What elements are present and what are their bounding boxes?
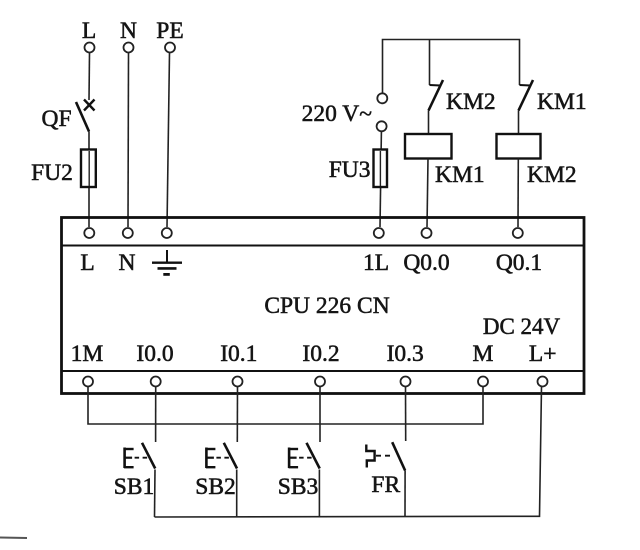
pin label Q0.0: [403, 250, 449, 276]
wire I0.2 drop: [319, 387, 321, 443]
svg-text:CPU 226 CN: CPU 226 CN: [264, 293, 389, 319]
wire KM2 coil to Q0.1: [517, 159, 519, 228]
terminal I0.0 pin: [151, 377, 161, 387]
terminal PE pin: [162, 228, 172, 238]
terminal N top: [124, 43, 134, 53]
wire SB3 to bottom bus: [318, 470, 320, 518]
wire I0.3 drop: [405, 387, 407, 442]
wire SB2 to bottom bus: [236, 470, 238, 518]
node PE label: [156, 18, 183, 44]
wire I0.1 drop: [236, 387, 238, 443]
svg-text:KM2: KM2: [527, 162, 577, 188]
svg-text:1M: 1M: [71, 341, 104, 367]
pushbutton SB1 label: [114, 474, 155, 500]
pin label N: [119, 250, 136, 276]
PLC CPU 226 CN box: [62, 218, 585, 394]
pushbutton SB2: [206, 443, 237, 469]
wire 1M to M common: [88, 387, 483, 425]
wire KM1 contact to KM2 coil: [518, 111, 520, 135]
terminal 1M pin: [83, 377, 93, 387]
svg-text:M: M: [473, 341, 494, 367]
wire KM2 branch drop: [429, 40, 431, 86]
pin label I0.2: [302, 341, 339, 367]
thermal contact FR label: [371, 472, 400, 498]
pushbutton SB1: [124, 443, 155, 469]
contact KM1 NC: [519, 80, 534, 111]
svg-text:SB2: SB2: [195, 474, 236, 500]
svg-text:220 V~: 220 V~: [302, 101, 373, 127]
pushbutton SB3 label: [278, 474, 319, 500]
wire bottom bus to L+: [155, 387, 542, 518]
svg-text:L: L: [82, 18, 96, 44]
page mark bottom left: [0, 537, 27, 540]
coil KM1 label: [435, 162, 485, 188]
pushbutton SB2 label: [195, 474, 236, 500]
svg-text:L: L: [80, 250, 94, 276]
svg-text:L+: L+: [529, 341, 557, 367]
svg-text:KM2: KM2: [446, 89, 496, 115]
terminal I0.2 pin: [315, 377, 325, 387]
wire 220V top bus: [383, 40, 520, 94]
terminal N pin: [123, 228, 133, 238]
fuse FU3: [374, 150, 388, 188]
ground symbol: [152, 250, 182, 274]
svg-text:SB1: SB1: [114, 474, 155, 500]
source 220V terminal lower: [377, 121, 387, 131]
fuse FU2 label: [31, 160, 73, 186]
terminal Q0.0 pin: [422, 228, 432, 238]
terminal Q0.1 pin: [513, 228, 523, 238]
svg-text:I0.2: I0.2: [302, 341, 339, 367]
svg-text:I0.3: I0.3: [387, 341, 424, 367]
PLC label DC 24V: [483, 314, 561, 339]
coil KM2: [497, 134, 541, 159]
svg-text:QF: QF: [41, 106, 71, 132]
svg-text:I0.0: I0.0: [136, 341, 173, 367]
pin label L: [80, 250, 94, 276]
wire I0.0 drop: [155, 387, 157, 443]
coil KM2 label: [527, 162, 577, 188]
terminal PE top: [165, 43, 175, 53]
pin label I0.0: [136, 341, 173, 367]
contact KM2 label: [446, 89, 496, 115]
wire to FU3: [380, 132, 381, 227]
svg-text:KM1: KM1: [537, 89, 587, 115]
coil KM1: [405, 134, 452, 159]
wire FR to bottom bus: [404, 471, 406, 517]
contact KM1 label: [537, 89, 587, 115]
svg-text:KM1: KM1: [435, 162, 485, 188]
contact KM2 NC: [429, 80, 444, 111]
svg-text:SB3: SB3: [278, 474, 319, 500]
pushbutton SB3: [289, 443, 320, 469]
svg-text:N: N: [119, 250, 136, 276]
pin label 1L: [363, 250, 389, 276]
fuse FU2: [81, 150, 96, 228]
pin label L+: [529, 341, 557, 367]
svg-text:FR: FR: [371, 472, 400, 498]
terminal I0.3 pin: [401, 377, 411, 387]
wire PE vertical: [167, 53, 170, 227]
svg-text:Q0.0: Q0.0: [403, 250, 449, 276]
thermal contact FR: [366, 442, 405, 470]
svg-text:1L: 1L: [363, 250, 389, 276]
pin label 1M: [71, 341, 104, 367]
terminal M pin: [478, 377, 488, 387]
node N label: [120, 18, 137, 44]
fuse FU3 label: [329, 157, 371, 183]
svg-text:Q0.1: Q0.1: [496, 250, 542, 276]
terminal L pin: [84, 228, 94, 238]
PLC label CPU 226 CN: [264, 293, 389, 319]
svg-text:DC 24V: DC 24V: [483, 314, 561, 339]
wire QF to FU2: [88, 132, 90, 151]
source 220V terminal upper: [377, 93, 387, 103]
breaker QF label: [41, 106, 71, 132]
terminal L+ pin: [538, 377, 548, 387]
wire L to QF: [88, 53, 91, 100]
wire N vertical: [127, 53, 130, 227]
terminal L top: [85, 43, 95, 53]
breaker QF: [76, 100, 95, 132]
svg-text:PE: PE: [156, 18, 183, 44]
terminal I0.1 pin: [233, 377, 243, 387]
pin label M: [473, 341, 494, 367]
wire KM2 contact to KM1 coil: [428, 111, 430, 135]
svg-text:FU3: FU3: [329, 157, 371, 183]
wire SB1 to bottom bus: [154, 470, 157, 518]
svg-text:N: N: [120, 18, 137, 44]
svg-text:I0.1: I0.1: [220, 341, 257, 367]
wire KM1 coil to Q0.0: [427, 159, 428, 228]
node L label: [82, 18, 96, 44]
pin label I0.1: [220, 341, 257, 367]
terminal 1L pin: [374, 228, 384, 238]
pin label Q0.1: [496, 250, 542, 276]
pin label I0.3: [387, 341, 424, 367]
svg-text:FU2: FU2: [31, 160, 73, 186]
source 220V label: [302, 101, 373, 127]
